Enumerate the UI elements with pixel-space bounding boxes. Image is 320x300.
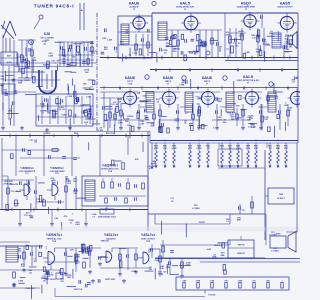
wire yoke bus lines xyxy=(155,258,300,260)
svg-text:½6SN7ɢᴛ: ½6SN7ɢᴛ xyxy=(102,164,118,168)
svg-text:6.8K: 6.8K xyxy=(207,249,212,251)
deflection yoke xyxy=(270,236,286,248)
svg-text:12K: 12K xyxy=(160,268,164,270)
resistor bleeder R48 xyxy=(237,143,239,151)
extra labels IF texture xyxy=(114,95,285,138)
resistor bleeder R53 xyxy=(285,143,287,151)
svg-text:100K: 100K xyxy=(171,148,177,150)
svg-text:VT1B: VT1B xyxy=(108,171,113,173)
tube 6J6 electrodes xyxy=(41,70,43,87)
output transformer xyxy=(272,33,281,48)
svg-text:68K: 68K xyxy=(197,99,201,101)
grounds bottom strip xyxy=(23,268,25,270)
svg-text:1.5M: 1.5M xyxy=(217,119,222,121)
svg-text:2.2M: 2.2M xyxy=(18,280,23,282)
wire bottom long xyxy=(55,296,205,298)
svg-text:BLK-YEL: BLK-YEL xyxy=(106,133,115,135)
svg-text:33K: 33K xyxy=(73,193,77,195)
wire hv loop xyxy=(154,214,156,224)
wire tuner feed verticals xyxy=(79,3,81,30)
svg-text:4.7 MEG: 4.7 MEG xyxy=(192,207,200,210)
wire deflection rail left xyxy=(0,209,148,211)
svg-text:2.2M: 2.2M xyxy=(98,130,103,132)
svg-text:M: M xyxy=(30,42,32,44)
resistor bleeder R41 xyxy=(164,143,166,151)
mixer grid parts xyxy=(58,59,94,61)
wire IF rail upper partial xyxy=(100,91,140,93)
circled letter C xyxy=(223,76,227,80)
wire bleeder return bus xyxy=(218,167,265,169)
video det output parts xyxy=(261,104,263,130)
svg-text:47K: 47K xyxy=(149,167,153,170)
IF transformer 3 xyxy=(226,92,234,112)
tube right edge video amp xyxy=(291,92,304,105)
svg-text:6.8K: 6.8K xyxy=(245,52,250,54)
value labels & small parts audio row xyxy=(101,28,295,60)
tube half 6SL7 balance xyxy=(106,251,112,262)
circled pin 9 xyxy=(200,42,204,46)
circled letter B xyxy=(182,76,186,80)
tube half 6SN7 sync separator xyxy=(24,184,30,196)
wire antenna lead-in xyxy=(5,38,7,52)
svg-text:6.8K: 6.8K xyxy=(246,148,251,150)
svg-text:12K: 12K xyxy=(54,218,58,220)
arrow terminal R46 xyxy=(221,163,223,166)
wire chain stub left xyxy=(151,143,153,166)
wire section vertical x148 xyxy=(147,143,149,231)
resistor bleeder R51 xyxy=(269,143,271,151)
wire tuner horizontal rails xyxy=(0,62,97,64)
arrow terminal R51 xyxy=(269,163,271,166)
horizontal hold pot xyxy=(100,209,114,214)
svg-text:33K: 33K xyxy=(254,148,258,150)
svg-text:33K: 33K xyxy=(140,124,144,126)
resistor bleeder R40 xyxy=(155,143,157,151)
fold band lower right xyxy=(198,259,300,264)
svg-text:C31 .05: C31 .05 xyxy=(17,57,25,59)
svg-text:2.2M: 2.2M xyxy=(118,123,123,125)
osc interior parts xyxy=(102,182,105,188)
arrow terminal R53 xyxy=(285,163,287,166)
svg-text:SYNC SEPARATOR: SYNC SEPARATOR xyxy=(19,170,36,173)
wire bottom strip rails xyxy=(0,245,43,247)
svg-text:12K: 12K xyxy=(76,257,80,259)
svg-text:VERTICAL: VERTICAL xyxy=(101,240,109,243)
svg-text:68K: 68K xyxy=(256,51,260,53)
IF stage components xyxy=(120,104,122,126)
svg-text:PEAK ADJ: PEAK ADJ xyxy=(25,287,35,290)
svg-text:TUNER 94C8-I: TUNER 94C8-I xyxy=(34,4,75,9)
arrow terminal R40 xyxy=(155,163,157,166)
svg-text:1M: 1M xyxy=(125,32,128,34)
sound IF transformer xyxy=(121,24,129,44)
svg-text:1.5M: 1.5M xyxy=(236,148,241,150)
grounds IF row xyxy=(120,126,122,128)
svg-text:270K: 270K xyxy=(265,45,271,47)
svg-text:VT1B: VT1B xyxy=(52,241,57,243)
wire right edge vertical xyxy=(297,70,299,143)
value labels & small parts tuner xyxy=(0,41,100,126)
wire top rail xyxy=(152,12,298,14)
svg-text:SYNC AMPLIFIER: SYNC AMPLIFIER xyxy=(49,170,65,173)
focus bleeder box xyxy=(176,277,289,290)
wire chain bracket xyxy=(218,143,220,148)
svg-text:½6SL7ɢᴛ: ½6SL7ɢᴛ xyxy=(104,233,119,237)
svg-text:HEIGHT: HEIGHT xyxy=(237,253,245,255)
svg-text:1.5M: 1.5M xyxy=(126,125,131,127)
circled letter V xyxy=(269,82,273,86)
svg-text:68K: 68K xyxy=(237,220,241,222)
wire vert out bus xyxy=(155,257,265,259)
right mid parts xyxy=(239,204,241,214)
tube 6AU6 third IF xyxy=(202,92,215,105)
wire IF rail top xyxy=(100,87,298,89)
value labels & small parts IF row xyxy=(98,78,296,137)
svg-text:VERT SIZE: VERT SIZE xyxy=(105,279,116,281)
rail junction ticks xyxy=(10,56,290,212)
svg-text:270K: 270K xyxy=(53,113,59,115)
svg-text:82K: 82K xyxy=(52,183,56,185)
resistor bleeder R47 xyxy=(229,143,231,151)
tube 6AL5 video detector xyxy=(246,92,259,105)
circled pin 2 xyxy=(206,51,210,55)
tube half 6SL7 vertical output xyxy=(143,252,149,264)
svg-text:12K: 12K xyxy=(70,250,74,252)
value labels & small parts bottom strip xyxy=(18,242,228,284)
svg-text:1.5M: 1.5M xyxy=(55,103,60,105)
value labels & small parts sync area xyxy=(3,161,156,230)
svg-text:1M: 1M xyxy=(60,281,63,283)
svg-text:AUDIO OUTPUT: AUDIO OUTPUT xyxy=(277,6,293,9)
tuner left wires xyxy=(2,35,4,126)
volume control xyxy=(231,46,234,53)
svg-text:1M: 1M xyxy=(289,47,292,49)
extra bottom-left parts xyxy=(13,272,16,278)
audio output parts xyxy=(283,48,285,57)
svg-text:½6SN7ɢᴛ: ½6SN7ɢᴛ xyxy=(46,233,62,237)
svg-text:R67: R67 xyxy=(194,205,197,207)
svg-text:47K: 47K xyxy=(135,158,139,161)
resistor bleeder R50 xyxy=(255,143,257,151)
svg-text:C73: C73 xyxy=(170,198,173,200)
svg-text:10K: 10K xyxy=(163,148,167,150)
svg-text:47K: 47K xyxy=(154,147,158,150)
wire sync top links xyxy=(8,149,60,151)
tube 6AU6 sound IF xyxy=(133,17,145,29)
detector transformer xyxy=(158,22,167,40)
svg-text:47K: 47K xyxy=(247,118,251,121)
wire deflection rail right xyxy=(148,213,265,215)
svg-text:WIDTH: WIDTH xyxy=(238,245,245,247)
resistor bleeder R52 xyxy=(277,143,279,151)
svg-text:½6SN7ɢᴛ: ½6SN7ɢᴛ xyxy=(50,166,64,170)
svg-text:VT11: VT11 xyxy=(25,173,29,175)
tube 6AU6 second IF xyxy=(163,92,176,105)
svg-text:GREEN: GREEN xyxy=(83,105,90,107)
tube 6SQ7 envelope xyxy=(244,15,256,27)
osc transformer xyxy=(85,180,95,201)
svg-text:2.2M: 2.2M xyxy=(239,36,244,38)
svg-text:C75: C75 xyxy=(241,210,244,212)
resistor bleeder R49 xyxy=(247,143,249,151)
circled letter A xyxy=(145,75,149,79)
hv rectifier box xyxy=(268,188,294,204)
resistor bleeder R45 xyxy=(207,143,209,151)
texture labels top stages xyxy=(123,31,293,62)
svg-text:6AU6: 6AU6 xyxy=(163,75,174,80)
arrow terminal R44 xyxy=(198,163,200,166)
tube 6AL5 envelope xyxy=(184,16,198,30)
antenna terminal box xyxy=(1,52,17,65)
svg-text:2.2M: 2.2M xyxy=(107,39,112,41)
texture labels bottom strip 2 xyxy=(13,245,153,299)
wire kinescope vertical xyxy=(265,214,267,245)
svg-text:100K: 100K xyxy=(174,121,180,123)
svg-text:½6SL7ɢᴛ: ½6SL7ɢᴛ xyxy=(141,233,156,237)
arrow terminal R47 xyxy=(229,163,231,166)
tuner lower box xyxy=(36,94,93,126)
arrow terminal R52 xyxy=(277,163,279,166)
arrow terminal R50 xyxy=(255,163,257,166)
vert osc parts xyxy=(23,246,25,266)
resistor bleeder R46 xyxy=(221,143,223,151)
tube 6J6 envelope xyxy=(39,70,56,94)
svg-text:68K: 68K xyxy=(120,44,124,46)
wire deflection stubs xyxy=(19,210,21,223)
svg-text:82K: 82K xyxy=(18,83,22,85)
svg-text:6AL5: 6AL5 xyxy=(180,1,191,6)
wire left edge vertical xyxy=(1,138,3,210)
svg-text:33K: 33K xyxy=(251,127,255,129)
svg-text:270K: 270K xyxy=(196,148,202,150)
svg-text:VT 0A: VT 0A xyxy=(128,82,134,85)
svg-text:82K: 82K xyxy=(269,33,273,35)
wire sync feed verticals xyxy=(15,136,17,177)
tube half 6SN7 sync amplifier xyxy=(52,184,58,196)
wire IF mid rails xyxy=(140,106,152,108)
wire bus vertical join xyxy=(147,132,149,144)
svg-text:HV RECT: HV RECT xyxy=(277,198,286,200)
svg-text:C31 .05: C31 .05 xyxy=(252,37,260,39)
svg-text:½6SN7ɢᴛ: ½6SN7ɢᴛ xyxy=(20,166,34,170)
svg-text:1M: 1M xyxy=(62,58,65,60)
svg-text:68K: 68K xyxy=(166,267,170,269)
arrow terminal R48 xyxy=(237,163,239,166)
tube half 6SN7 vertical osc xyxy=(48,252,55,265)
svg-text:R24 47K: R24 47K xyxy=(10,183,19,186)
tube 6AS5 envelope xyxy=(280,16,293,29)
svg-text:FOCUS: FOCUS xyxy=(209,295,217,297)
svg-text:4.7 MEG: 4.7 MEG xyxy=(269,233,277,236)
svg-text:10K: 10K xyxy=(85,72,89,74)
resistor bleeder R44 xyxy=(198,143,200,151)
circled contact top xyxy=(39,15,43,19)
circled contact M xyxy=(29,40,34,45)
svg-text:6AU6: 6AU6 xyxy=(125,75,136,80)
svg-text:1.5M: 1.5M xyxy=(67,96,72,98)
svg-text:68K: 68K xyxy=(221,255,225,257)
sound IF trap box xyxy=(118,16,152,58)
svg-text:68K: 68K xyxy=(218,101,222,103)
arrow terminal R41 xyxy=(164,163,166,166)
svg-text:VT1B: VT1B xyxy=(146,241,151,243)
circled pin 10 xyxy=(152,1,156,5)
arrow terminal R43 xyxy=(189,163,191,166)
grounds tuner xyxy=(21,126,23,128)
IF detector coil xyxy=(268,92,276,112)
svg-text:1.5M: 1.5M xyxy=(132,53,137,55)
vert amp parts xyxy=(119,248,121,272)
svg-text:C31 .05: C31 .05 xyxy=(111,104,119,106)
svg-text:1M: 1M xyxy=(26,183,29,185)
arrow terminal R42 xyxy=(173,163,175,166)
svg-text:6SQ7: 6SQ7 xyxy=(241,1,252,6)
svg-text:.05: .05 xyxy=(171,201,174,203)
svg-text:R24 47K: R24 47K xyxy=(214,244,223,247)
svg-text:6.8K: 6.8K xyxy=(32,60,37,62)
detector stage parts xyxy=(171,30,173,57)
wire bottom-left rails xyxy=(0,269,60,271)
svg-text:100K: 100K xyxy=(61,115,67,117)
svg-text:1.5M: 1.5M xyxy=(76,55,81,57)
label focus xyxy=(204,290,206,294)
tube 6AU6 first IF xyxy=(124,92,137,105)
wire IF bottom bus right double xyxy=(150,140,298,142)
svg-text:100K: 100K xyxy=(24,80,30,82)
wire right edge vertical lower xyxy=(296,143,298,232)
svg-text:10K: 10K xyxy=(14,93,18,95)
svg-text:2.2M: 2.2M xyxy=(237,117,242,119)
svg-text:C31 .05: C31 .05 xyxy=(57,109,65,111)
wire tall vertical right x265 xyxy=(264,150,266,240)
arrow terminal R49 xyxy=(247,163,249,166)
svg-text:VERT LIN: VERT LIN xyxy=(74,289,83,291)
svg-text:68K: 68K xyxy=(276,148,280,150)
tuner boundary dash-dot xyxy=(96,13,98,132)
fold band upper xyxy=(0,227,300,232)
resistor bleeder R43 xyxy=(189,143,191,151)
horizontal osc block box xyxy=(82,176,148,206)
svg-text:HORIZONTAL HOLD: HORIZONTAL HOLD xyxy=(98,216,117,219)
texture labels IF interiors xyxy=(105,96,275,132)
wire audio ground rail xyxy=(150,69,298,71)
value labels right mid xyxy=(162,217,242,237)
sync stage parts xyxy=(7,176,9,209)
IF transformer 1 xyxy=(146,92,154,112)
svg-text:BLACK: BLACK xyxy=(44,132,52,135)
sound IF stage parts xyxy=(135,34,137,56)
svg-text:6AS5: 6AS5 xyxy=(280,1,291,6)
svg-text:6AU6: 6AU6 xyxy=(202,75,213,80)
width height block xyxy=(228,240,254,258)
wire IF bottom bus left BLACK xyxy=(0,131,150,133)
wire top right border xyxy=(297,13,299,70)
IF input from tuner xyxy=(100,97,121,99)
fine tuning caps xyxy=(41,96,43,124)
IF transformer 2 xyxy=(185,92,193,112)
extra labels bottom texture xyxy=(17,244,159,287)
vertical blocking transformer xyxy=(6,246,18,262)
svg-text:68K: 68K xyxy=(231,119,235,121)
svg-text:1M: 1M xyxy=(268,148,271,150)
resistor bleeder R42 xyxy=(173,143,175,151)
wire left bottom links xyxy=(0,287,40,289)
osc trimmer cluster xyxy=(59,42,61,66)
svg-text:VERT HOLD: VERT HOLD xyxy=(45,279,57,281)
wire top stage divider xyxy=(151,13,153,57)
svg-text:6J6: 6J6 xyxy=(44,32,50,36)
extra labels sync texture xyxy=(11,140,143,169)
rf coil bank xyxy=(21,40,23,78)
svg-text:6.8K: 6.8K xyxy=(75,224,80,226)
svg-text:47K: 47K xyxy=(284,37,288,40)
wire B+ rail xyxy=(100,57,298,59)
circled pin 6 xyxy=(171,35,175,39)
antenna xyxy=(3,21,10,38)
svg-text:1.5M: 1.5M xyxy=(179,85,184,87)
svg-text:VT11: VT11 xyxy=(55,173,59,175)
svg-text:1.5M: 1.5M xyxy=(86,96,91,98)
bleeder group box xyxy=(218,149,242,166)
svg-text:68K: 68K xyxy=(8,111,12,113)
audio amp parts xyxy=(229,28,231,57)
speaker xyxy=(288,36,293,44)
svg-text:33K: 33K xyxy=(102,38,106,40)
svg-text:2.2M: 2.2M xyxy=(224,34,229,36)
wire B+ rail 2 xyxy=(225,60,298,62)
arrow terminal R45 xyxy=(207,163,209,166)
vert output coupling parts xyxy=(151,244,153,258)
svg-text:4.7 MEG: 4.7 MEG xyxy=(271,249,279,252)
svg-text:6AU6: 6AU6 xyxy=(129,1,140,6)
svg-text:10K: 10K xyxy=(83,84,87,86)
extra labels tuner texture xyxy=(25,52,90,130)
svg-text:2.2M: 2.2M xyxy=(48,55,53,57)
svg-text:6AL5: 6AL5 xyxy=(243,74,254,79)
